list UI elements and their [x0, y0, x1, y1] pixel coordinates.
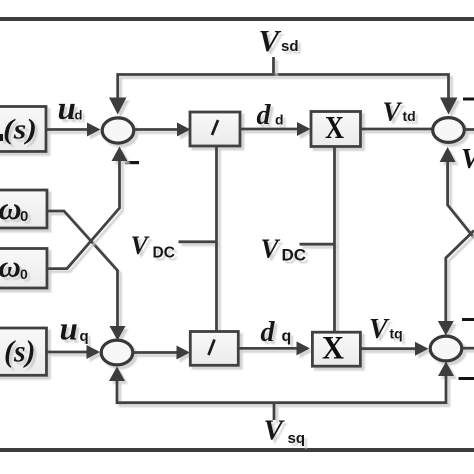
svg-text:sq: sq — [288, 430, 306, 447]
wire S2 output into divider block with arrowhead — [133, 346, 191, 360]
wire V_DC right tick — [300, 243, 335, 246]
svg-text:V: V — [383, 97, 403, 127]
wire from right edge down into S4 top with arrowhead — [438, 231, 474, 336]
wire u_d into summing node S1 with arrowhead — [46, 123, 101, 137]
transfer-function block H(s) d-axis — [0, 107, 46, 152]
wire d_d into multiplier block with arrowhead — [240, 122, 311, 136]
svg-text:d: d — [261, 317, 276, 348]
wire V_sd feedforward rail — [109, 75, 458, 115]
label V_sd tick to rail — [272, 57, 275, 73]
wire V_td from multiplier to summing node S3 — [361, 128, 434, 131]
minus sign at S1 lower input — [125, 161, 139, 164]
wire cross-coupling from lower w0 block up into summing node S1 with arrowhead — [47, 147, 128, 269]
svg-text:q: q — [282, 328, 292, 345]
divider block U1 (d-axis /) — [190, 112, 240, 146]
label V_sd — [259, 23, 299, 58]
svg-text:d: d — [257, 100, 272, 131]
minus sign at S4 top input — [462, 318, 474, 321]
multiplier block U2 (d-axis X) — [311, 112, 361, 147]
label u_d — [58, 91, 83, 127]
wire d_q into multiplier block with arrowhead — [238, 341, 310, 355]
gain block Lw0 lower — [0, 249, 47, 289]
transfer-function block H(s) q-axis — [0, 328, 47, 375]
block Lw0 upper text — [0, 190, 28, 226]
minus sign at S3 top input — [463, 98, 474, 101]
label V_td — [383, 97, 416, 127]
divider block U3 (q-axis /) — [190, 332, 238, 366]
wire S4 output to right edge — [462, 347, 474, 350]
svg-text:V: V — [261, 234, 281, 264]
summing node S3 (d-axis right) — [433, 118, 465, 143]
block H(s) d-axis text (s) — [0, 114, 37, 146]
label d_d — [257, 100, 284, 131]
label u_q — [60, 312, 89, 348]
svg-text:q: q — [80, 328, 89, 345]
svg-text:d: d — [75, 108, 83, 123]
svg-text:DC: DC — [153, 245, 175, 262]
figure top border — [0, 17, 474, 21]
block H(s) q-axis text (s) — [4, 335, 36, 369]
svg-text:V: V — [259, 23, 282, 58]
svg-text:u: u — [60, 312, 78, 348]
svg-text:td: td — [403, 108, 416, 124]
svg-text:(s): (s) — [4, 335, 36, 369]
svg-text:ω: ω — [0, 190, 22, 226]
block Lw0 lower text — [0, 249, 28, 284]
multiplier block U4 (q-axis X) — [312, 332, 360, 366]
wire S3 output to right edge — [464, 128, 474, 131]
svg-text:X: X — [322, 331, 344, 367]
svg-text:V: V — [461, 144, 474, 175]
svg-text:(s): (s) — [3, 114, 37, 146]
svg-text:DC: DC — [282, 246, 307, 265]
svg-text:ω: ω — [0, 249, 21, 284]
svg-text:V: V — [369, 314, 390, 345]
svg-text:0: 0 — [20, 266, 28, 282]
label V_DC left — [131, 231, 175, 262]
svg-text:tq: tq — [390, 326, 403, 342]
svg-text:u: u — [58, 91, 76, 127]
svg-text:V: V — [264, 415, 286, 447]
svg-text:sd: sd — [281, 38, 299, 55]
summing node S1 (d-axis left) — [102, 118, 134, 143]
wire V_DC vertical between divider blocks — [215, 146, 218, 332]
wire u_q into summing node S2 with arrowhead — [47, 345, 101, 359]
summing node S4 (q-axis right) — [430, 336, 462, 361]
summing node S2 (q-axis left) — [101, 340, 133, 365]
divider block U3 slash text — [209, 340, 215, 356]
svg-text:X: X — [325, 109, 344, 145]
label V_tq — [369, 314, 403, 345]
svg-text:0: 0 — [20, 208, 28, 225]
gain block Lw0 upper — [0, 190, 47, 228]
wire V_sq feedforward rail with arrowheads into S2 and S4 — [109, 362, 454, 403]
label V_sq — [264, 415, 306, 448]
wire V_tq into summing node S4 with arrowhead — [361, 342, 429, 356]
wire from right edge up into S3 bottom with arrowhead — [440, 147, 474, 238]
minus sign at S4 bottom input — [459, 377, 474, 380]
label V_sq tick to rail — [273, 404, 276, 420]
divider block U1 slash text — [212, 120, 218, 135]
svg-text:d: d — [275, 112, 284, 128]
wire S1 output into divider block with arrowhead — [134, 123, 191, 137]
figure bottom border — [0, 448, 474, 452]
wire cross-coupling from upper w0 block down into summing node S2 with arrowhead — [47, 211, 126, 341]
svg-text:V: V — [131, 231, 151, 260]
label d_q — [261, 317, 292, 348]
label V_DC right — [261, 234, 307, 265]
wire V_DC left tick — [179, 240, 217, 243]
wire V_DC vertical between multiplier blocks — [333, 147, 336, 333]
